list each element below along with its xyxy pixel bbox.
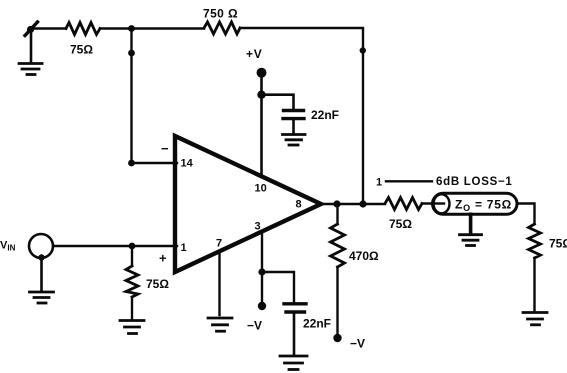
- svg-text:750 Ω: 750 Ω: [203, 7, 238, 21]
- svg-text:+: +: [159, 251, 167, 266]
- wire: R3 to ground G3: [131, 297, 133, 320]
- svg-text:10: 10: [255, 183, 267, 195]
- wire: pin 3 down to junction: [261, 232, 263, 272]
- junction dot output / 470 branch: [333, 200, 340, 207]
- capacitor C2 22nF plates: [284, 302, 306, 305]
- input corner blob: [27, 26, 34, 33]
- junction dot output / feedback: [359, 200, 366, 207]
- op-amp U1 triangle: [175, 136, 321, 272]
- svg-text:+V: +V: [246, 47, 263, 61]
- ground G4 (pin 7): [208, 318, 232, 331]
- svg-text:75Ω: 75Ω: [389, 217, 412, 231]
- wire: pin-3 junction to C2: [262, 272, 294, 302]
- wire: C2 to ground G6: [293, 314, 296, 355]
- junction dot pin14 wire: [128, 160, 135, 167]
- wire: C1 to ground G5: [292, 120, 295, 133]
- svg-text:1: 1: [181, 242, 187, 254]
- resistor R6 75ohm (load): [529, 224, 541, 258]
- wire: pin 14 (inverting input): [132, 162, 178, 164]
- wire: +V branch to C1: [262, 95, 294, 109]
- wire: input corner to R1: [31, 27, 66, 29]
- svg-text:−V: −V: [350, 337, 365, 351]
- svg-text:75Ω: 75Ω: [70, 43, 93, 57]
- junction dot pin 3 branch: [258, 268, 265, 275]
- -V terminal dot (R4): [333, 334, 341, 342]
- wire: input corner down to ground G1: [30, 29, 33, 63]
- svg-text:22nF: 22nF: [311, 108, 339, 122]
- coax inner ellipse: [434, 194, 450, 213]
- svg-text:7: 7: [216, 238, 222, 250]
- wire: R1 to node A and on to R2: [100, 27, 204, 29]
- ground G3: [120, 321, 144, 334]
- capacitor C1 22nF plates: [284, 109, 304, 112]
- wire: node A down to pin 14: [130, 29, 132, 164]
- ground G1 (input): [19, 64, 42, 75]
- ground G2 (VIN): [30, 292, 54, 303]
- svg-text:6dB LOSS−1: 6dB LOSS−1: [436, 176, 513, 188]
- wire: output node down to R4: [336, 204, 338, 224]
- svg-text:1: 1: [376, 177, 382, 189]
- VIN source circle: [29, 234, 53, 258]
- svg-text:470Ω: 470Ω: [349, 249, 379, 263]
- ground G5 (C1): [283, 135, 306, 146]
- resistor R2 750ohm (feedback): [204, 22, 240, 34]
- svg-text:8: 8: [296, 199, 302, 211]
- svg-text:3: 3: [255, 221, 261, 233]
- resistor R1 75ohm (series, top-left): [66, 23, 100, 35]
- +V terminal dot: [257, 68, 267, 78]
- coax cable capsule Z0=75ohm: [433, 193, 518, 214]
- svg-text:−V: −V: [247, 319, 262, 333]
- wire stub inside coax ellipse: [435, 202, 445, 204]
- wire: VIN to pin 1: [53, 245, 177, 247]
- output wire: apex to R5: [321, 203, 385, 205]
- wire: R4 down to -V terminal: [336, 267, 338, 335]
- junction dot on feedback vertical: [360, 47, 366, 53]
- svg-text:−: −: [161, 141, 169, 156]
- VIN source bottom dot: [38, 254, 44, 260]
- resistor R3 75ohm (input shunt): [131, 246, 133, 266]
- node A junction dot: [128, 25, 135, 32]
- -V terminal dot (pin 3): [258, 302, 266, 310]
- svg-text:14: 14: [181, 158, 194, 170]
- ground G7 (coax): [460, 235, 482, 246]
- junction dot +V branch: [257, 91, 265, 99]
- wire: +V down to pin 10: [260, 73, 263, 177]
- wire: R5 to coax: [422, 202, 443, 204]
- svg-text:75Ω: 75Ω: [146, 277, 169, 291]
- wire: VIN source down to ground G2: [40, 258, 43, 290]
- wire: coax to load corner, down: [517, 204, 535, 225]
- coax ground stem G7: [469, 214, 473, 233]
- wire: R2 right to corner, down to output node: [240, 28, 363, 204]
- wire: pin 7 to ground G4: [218, 251, 220, 315]
- svg-text:75Ω: 75Ω: [549, 237, 567, 251]
- ground G8 (load): [523, 313, 547, 325]
- input slash tick: [25, 22, 38, 36]
- junction dot on feedback drop: [128, 50, 135, 57]
- resistor R5 75ohm (series output): [385, 198, 422, 210]
- ground G6 (C2): [280, 356, 307, 370]
- junction dot pin1 wire: [129, 243, 136, 250]
- resistor R4 470ohm: [331, 224, 345, 267]
- wire: junction down to -V terminal: [261, 272, 263, 303]
- wire: R6 down to ground G8: [533, 258, 535, 311]
- svg-text:22nF: 22nF: [303, 317, 331, 331]
